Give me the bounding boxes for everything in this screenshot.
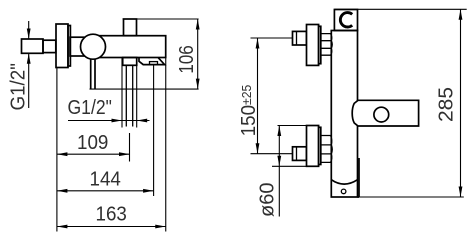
dim G1/2 small at lever (28, 21, 30, 108)
C hook (340, 13, 352, 27)
top union: facets (321, 34, 332, 56)
ext y=89.1 (90, 88, 199, 90)
hose pipes (126, 65, 132, 126)
main column (331, 31, 357, 198)
hose nipple below body (123, 58, 137, 66)
ext x=153.6 (spout pipe) (153, 65, 155, 196)
dim 163 (57, 226, 166, 228)
ext x=129.5 (hose center) (129, 133, 131, 162)
ext y=153.7 lower union (251, 153, 293, 155)
arrows left view (27, 19, 200, 228)
stem (70, 37, 84, 56)
dim G1/2 bottom (68, 120, 150, 122)
svg-text:106: 106 (175, 45, 198, 73)
ball pipes (91, 59, 95, 89)
ext y=197 bottom (359, 196, 464, 198)
dim 150±25 (257, 38, 259, 154)
ext y=166.3 (272, 165, 307, 167)
handle block (352, 100, 418, 126)
texts right view (237, 85, 457, 217)
ext right x=165.75 (165, 58, 167, 232)
extension + dimension lines, right view (251, 9, 467, 216)
top union: nut (293, 31, 307, 45)
lever hub (43, 40, 56, 52)
ball (81, 34, 106, 59)
hook bracket (334, 10, 357, 31)
svg-text:144: 144 (90, 168, 122, 191)
dim 285 (460, 9, 462, 197)
escutcheon lip (68, 26, 70, 67)
lower outer edge (358, 158, 360, 197)
top union: escutcheon (307, 25, 319, 66)
spout underside (139, 58, 165, 65)
top outlet rect (124, 19, 137, 36)
svg-text:150±25: 150±25 (237, 85, 260, 137)
dim 144 (57, 190, 154, 192)
lever bar (22, 39, 44, 53)
escutcheon (56, 24, 68, 68)
ext x=122 (121, 58, 123, 128)
ext x=136.7 (136, 58, 138, 128)
svg-text:163: 163 (96, 203, 127, 226)
aerator rect (150, 62, 158, 65)
lower union: facets (321, 136, 332, 163)
svg-text:G1/2": G1/2" (7, 63, 30, 110)
lower union: nut (293, 147, 307, 161)
lower union: escutcheon (307, 126, 319, 167)
ext y=125.5 (278, 125, 307, 127)
ext y=19 top (123, 18, 199, 20)
handle ball circle (374, 107, 389, 122)
bottom arc (331, 180, 357, 184)
svg-text:G1/2": G1/2" (68, 96, 112, 118)
dim ø60 (278, 126, 280, 217)
svg-text:ø60: ø60 (257, 183, 279, 217)
body (93, 36, 166, 58)
dim 109 (57, 153, 130, 155)
svg-text:109: 109 (77, 131, 108, 154)
bottom dot (341, 189, 346, 194)
texts left view (7, 45, 197, 225)
svg-text:285: 285 (435, 87, 457, 122)
extension + dimension lines, left view (29, 19, 199, 232)
dim 106 vertical (197, 19, 199, 89)
arrows right view (256, 9, 463, 197)
ext y=9.3 top (334, 8, 466, 10)
ext left x=56.9 (56, 68, 58, 232)
ext y=38 top union (251, 37, 293, 39)
